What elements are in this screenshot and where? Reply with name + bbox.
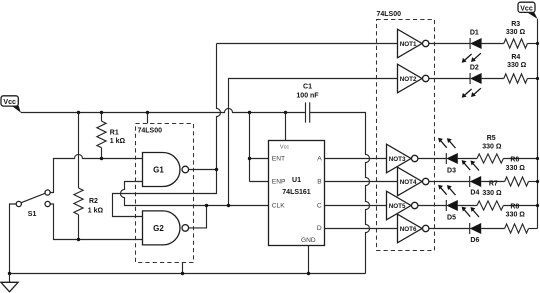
svg-text:S1: S1	[28, 211, 37, 218]
svg-text:NOT5: NOT5	[389, 203, 406, 210]
wire NOT6 row through D6/R8 to Vcc bus	[429, 228, 505, 230]
resistor R6	[505, 177, 529, 186]
inverter NOT3	[387, 144, 418, 173]
svg-text:74LS161: 74LS161	[282, 189, 311, 196]
svg-text:C: C	[317, 203, 322, 210]
switch S1	[16, 190, 50, 218]
svg-text:74LS00: 74LS00	[377, 11, 402, 18]
svg-text:B: B	[317, 179, 322, 186]
resistor R7 label	[482, 181, 502, 198]
svg-text:Vcc: Vcc	[3, 99, 16, 106]
svg-text:D6: D6	[470, 237, 479, 244]
svg-text:330 Ω: 330 Ω	[482, 143, 502, 150]
LED D6	[462, 207, 482, 244]
wire NOT4 row through D4/R6 to Vcc bus	[429, 181, 505, 183]
node Vcc rail junctions	[77, 111, 287, 114]
node ENT junction	[248, 157, 251, 160]
svg-text:D1: D1	[470, 30, 479, 37]
svg-text:C1: C1	[303, 83, 312, 90]
svg-text:D2: D2	[470, 64, 479, 71]
inverter NOT4	[398, 167, 429, 196]
node G1 output junction	[215, 168, 218, 171]
IC boundary 74LS00 (left, G1/G2 package)	[136, 124, 194, 263]
ground	[1, 274, 18, 292]
svg-text:ENP: ENP	[272, 179, 286, 186]
svg-text:U1: U1	[292, 177, 301, 184]
LED D3	[438, 138, 458, 175]
resistor R5 label	[482, 135, 502, 150]
svg-text:1 kΩ: 1 kΩ	[88, 207, 104, 214]
capacitor C1	[296, 83, 319, 122]
svg-text:CLK: CLK	[272, 203, 285, 210]
wire ENT/ENP tie to Vcc rail	[250, 113, 269, 182]
resistor R8	[505, 224, 529, 233]
resistor R3 label	[506, 21, 526, 36]
counter U1 74LS161	[269, 141, 325, 246]
wire NOT2 feed from CLK node	[229, 79, 398, 206]
svg-text:R4: R4	[511, 54, 520, 61]
svg-text:330 Ω: 330 Ω	[506, 29, 526, 36]
svg-text:GND: GND	[301, 237, 316, 244]
LED D2	[462, 64, 482, 98]
nand gate G2	[143, 211, 189, 245]
wire U1 Vcc pin	[285, 113, 287, 141]
wire NOT2 row through D2/R4 to Vcc bus	[429, 78, 504, 80]
wire Vcc right bus	[537, 19, 539, 229]
svg-text:R1: R1	[110, 130, 119, 137]
power flag Vcc (left)	[1, 96, 21, 113]
svg-text:NOT1: NOT1	[400, 41, 417, 48]
svg-text:330 Ω: 330 Ω	[507, 62, 527, 69]
wire G2 output to CLK node	[189, 206, 207, 228]
svg-text:D5: D5	[447, 214, 456, 221]
svg-text:Vcc: Vcc	[280, 145, 289, 151]
svg-text:R5: R5	[487, 135, 496, 142]
svg-text:D3: D3	[447, 167, 456, 174]
LED D1	[462, 30, 482, 63]
svg-text:100 nF: 100 nF	[296, 92, 319, 99]
wire U1 GND pin	[308, 246, 310, 274]
resistor R3	[504, 39, 528, 48]
svg-text:R8: R8	[510, 203, 519, 210]
nand gate G1	[143, 153, 189, 187]
resistor R4	[504, 74, 528, 83]
node right bus junctions	[536, 42, 539, 207]
svg-text:D4: D4	[470, 189, 479, 196]
svg-text:1 kΩ: 1 kΩ	[110, 138, 126, 145]
svg-text:G1: G1	[153, 165, 164, 174]
node ground bus junctions	[8, 272, 310, 275]
wire switch throw2 to R2 and G2 input 2	[50, 204, 142, 240]
inverter NOT1	[398, 29, 429, 58]
resistor R8 label	[506, 203, 526, 218]
svg-text:Vcc: Vcc	[520, 5, 533, 12]
wire NOT3 row through D3/R5 to Vcc bus	[418, 158, 477, 160]
wire ground bus	[10, 273, 366, 275]
svg-text:NOT4: NOT4	[400, 179, 417, 186]
resistor R2	[74, 113, 104, 242]
inverter NOT5	[387, 191, 418, 220]
svg-text:330 Ω: 330 Ω	[506, 165, 526, 172]
wire U1 outputs A-D to inverter inputs	[325, 159, 398, 229]
svg-text:R6: R6	[510, 157, 519, 164]
wire left 74LS00 GND drop	[182, 263, 184, 274]
svg-text:330 Ω: 330 Ω	[482, 190, 502, 197]
wire NOT5 row through D5/R7 to Vcc bus	[418, 205, 477, 207]
svg-text:R2: R2	[89, 198, 98, 205]
wire switch throw1 to R1 and G1 input 1 (hop over R2 branch)	[50, 154, 142, 192]
wire left 74LS00 Vcc drop	[147, 113, 149, 124]
svg-text:ENT: ENT	[272, 156, 285, 163]
svg-text:NOT3: NOT3	[389, 156, 406, 163]
IC boundary 74LS00 (right, NOT1-NOT6 package)	[377, 11, 435, 251]
resistor R5	[477, 154, 503, 163]
resistor R4 label	[507, 54, 527, 69]
inverter NOT6	[398, 214, 429, 243]
wire switch pole to ground	[10, 204, 17, 274]
wire Vcc rail from flag to C1 (hops over NOT2 feed)	[21, 108, 306, 112]
resistor R6 label	[506, 157, 526, 172]
node CLK junctions	[205, 204, 230, 207]
svg-text:330 Ω: 330 Ω	[506, 212, 526, 219]
svg-text:A: A	[317, 156, 322, 163]
power flag Vcc (right)	[518, 2, 538, 19]
svg-text:G2: G2	[153, 224, 164, 233]
svg-text:NOT6: NOT6	[400, 226, 417, 233]
resistor R1	[97, 113, 126, 161]
resistor R7	[477, 201, 503, 210]
LED D5	[438, 185, 458, 222]
inverter NOT2	[398, 64, 429, 93]
svg-text:R7: R7	[489, 181, 498, 188]
LED D4	[462, 160, 482, 196]
svg-text:NOT2: NOT2	[400, 76, 417, 83]
wire G1 output net: to NOT1 (up) and cross-couple to G2 input 1	[113, 44, 398, 217]
svg-text:D: D	[317, 225, 322, 232]
wire CLK line with G1 input 2 branch (hop over cross-couple wire)	[120, 182, 268, 206]
wire C1 right plate to ground bus (hops over rows A-D)	[310, 113, 370, 274]
wire NOT1 row through D1/R3 to Vcc bus	[429, 43, 504, 45]
svg-text:R3: R3	[511, 21, 520, 28]
svg-text:74LS00: 74LS00	[138, 128, 163, 135]
